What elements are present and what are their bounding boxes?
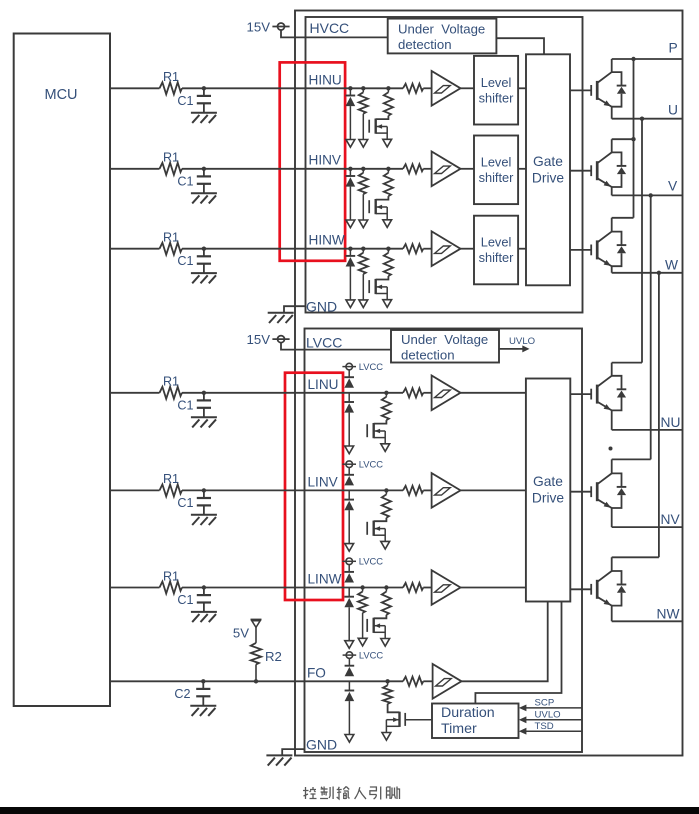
svg-text:detection: detection [401,347,455,362]
resistor R1 (HINW) [160,243,183,255]
COM arrow (MOSFET LINU) [381,444,390,452]
svg-text:Drive: Drive [532,491,565,506]
svg-text:MCU: MCU [44,87,77,103]
resistor to MOSFET (LINW) [385,588,387,592]
LVCC terminal [346,461,353,468]
junction node Q2 high-side V [631,137,635,141]
level shifter block [474,216,518,285]
node resistor branch HINV [361,167,365,171]
wire resistor to buffer (LINW) [423,587,431,589]
svg-text:Under Voltage: Under Voltage [401,332,488,347]
wire resistor to buffer (LINU) [423,392,431,394]
svg-text:R2: R2 [265,649,282,664]
MOSFET pull-down (LINW) [374,615,387,619]
svg-text:C2: C2 [174,687,190,701]
node diode branch HINU [348,86,352,90]
IGBT Q1 high-side U [570,89,591,91]
wire resistor to buffer (HINV) [423,168,431,170]
node resistor branch LINW [360,585,364,589]
resistor R2 pull-up [255,627,257,643]
gate drive block (low side) [526,379,570,602]
wire UV detection to gate drive [496,38,544,54]
wire buffer to level shifter [459,87,474,89]
junction node Q1 high-side U [631,57,635,61]
collector rail Q6 low-side W [612,556,659,558]
clamp diode to LVCC [348,658,350,665]
node resistor branch HINW [361,247,365,251]
clamp diode (HINV) [349,169,351,176]
COM arrow (MOSFET HINU) [383,139,392,147]
COM arrow (MOSFET LINV) [381,541,390,549]
caption 控制输入引脚 [303,787,400,800]
resistor R1 (HINU) [160,82,183,94]
wire 15V to LVCC rail [281,343,391,350]
svg-text:Level: Level [481,75,512,90]
wire W phase down [658,273,660,558]
svg-text:shifter: shifter [479,90,515,105]
svg-text:C1: C1 [177,593,193,607]
wire V phase down [650,195,652,459]
svg-text:C1: C1 [177,496,193,510]
resistor R1 (LINU) [160,387,183,399]
svg-text:C1: C1 [177,94,193,108]
wire LINW input row [110,587,160,589]
svg-text:LVCC: LVCC [359,650,384,661]
wire GND to ground [284,306,306,312]
clamp diode to LVCC [348,468,350,475]
COM arrow (resistor HINU) [359,140,368,148]
COM arrow (clamp) [345,544,354,552]
IGBT Q3 high-side W [570,249,591,251]
wire resistor to buffer (HINW) [423,248,431,250]
svg-text:GND: GND [306,737,337,753]
wire U phase down [641,119,643,363]
series resistor (HINW) [403,244,423,253]
UVLO input line [525,719,583,721]
node C2 [201,679,205,683]
svg-text:TSD: TSD [535,721,554,732]
svg-text:R1: R1 [163,151,179,165]
wire LINW row to IPM [182,587,403,589]
collector rail Q1 high-side U [612,58,683,60]
svg-text:15V: 15V [247,332,271,347]
svg-text:Level: Level [481,155,512,170]
schmitt buffer (LINV) [432,473,461,508]
wire LINU row to IPM [182,392,403,394]
series resistor (HINV) [403,164,423,173]
node MOSFET branch FO [385,679,389,683]
node C1 HINU [202,86,206,90]
junction node Q1 high-side U [640,117,644,121]
svg-text:LINV: LINV [308,475,338,490]
resistor to MOSFET (LINU) [385,393,387,397]
COM arrow (resistor HINW) [359,300,368,308]
5V terminal [251,619,262,621]
red highlight box HIN inputs [280,62,345,260]
wire 15V to HVCC rail [281,30,388,37]
IGBT Q2 high-side V [570,170,591,172]
svg-text:Gate: Gate [533,154,563,169]
svg-text:R1: R1 [163,231,179,245]
black footer bar [0,807,699,814]
terminal 15V HVCC [278,23,285,30]
LVCC terminal [346,652,353,659]
COM arrow (resistor LINW) [358,638,367,646]
wire level shifter to gate drive [518,248,526,250]
duration timer block [432,704,519,739]
ground (C1 HINW) [191,272,217,274]
svg-text:C1: C1 [177,174,193,188]
node MOSFET branch HINW [386,247,390,251]
LVCC terminal [346,363,353,370]
resistor to MOSFET (HINV) [387,169,389,173]
terminal 15V LVCC [278,336,285,343]
svg-text:5V: 5V [233,626,249,641]
capacitor C1 (LINV) [203,490,205,498]
series resistor (HINU) [403,84,423,93]
wire HINV row to IPM [182,168,403,170]
freewheel diode Q6 low-side W [612,571,622,585]
wire LINV row to IPM [182,489,403,491]
high-side section box [306,17,583,313]
MOSFET pull-down (HINU) [376,116,389,120]
wire LINV input row [110,489,160,491]
clamp diode to LVCC [348,565,350,572]
level shifter block [474,56,518,125]
series resistor (FO) [403,677,423,686]
schmitt buffer (FO) [433,664,462,699]
svg-text:Gate: Gate [533,474,563,489]
node MOSFET branch HINU [386,86,390,90]
resistor to MOSFET (HINU) [387,88,389,92]
wire resistor to buffer (HINU) [423,87,431,89]
MOSFET pull-down (LINU) [374,420,387,424]
node resistor branch HINU [361,86,365,90]
wire GND to ground (low side) [282,749,304,755]
svg-text:R1: R1 [163,472,179,486]
svg-text:NW: NW [657,607,680,622]
node C1 LINV [202,488,206,492]
svg-text:R1: R1 [163,70,179,84]
node MOSFET branch LINU [384,391,388,395]
svg-text:LVCC: LVCC [359,361,384,372]
svg-text:shifter: shifter [479,170,515,185]
emitter rail Q2 high-side V [612,194,683,196]
svg-text:LVCC: LVCC [359,459,384,470]
COM arrow (clamp) [345,446,354,454]
freewheel diode Q1 high-side U [612,72,622,86]
node diode branch HINW [348,247,352,251]
svg-text:R1: R1 [163,375,179,389]
svg-text:U: U [668,103,678,118]
schmitt buffer (HINW) [432,231,461,266]
node MOSFET branch HINV [386,167,390,171]
freewheel diode Q3 high-side W [612,232,622,246]
ground (C2) [190,705,216,707]
ground (low side GND) [266,754,292,756]
MOSFET (fault pull-down) [388,704,400,712]
series resistor (LINU) [403,388,423,397]
wire buffer to level shifter [459,168,474,170]
clamp diode low [348,588,350,597]
capacitor C1 (HINV) [203,169,205,177]
wire MOSFET gate to duration timer [405,719,432,721]
pull-down resistor (LINW) [362,588,364,592]
freewheel diode Q2 high-side V [612,152,622,166]
series resistor (LINV) [403,486,423,495]
UVLO output arrow [499,348,526,350]
svg-text:shifter: shifter [479,250,515,265]
SCP input line [525,707,583,709]
collector rail Q2 high-side V [612,138,634,140]
MOSFET pull-down (HINW) [376,276,389,280]
COM arrow (diode HINU) [346,140,355,148]
schmitt buffer (HINU) [432,71,461,106]
pull-down resistor (HINW) [362,249,364,253]
MOSFET pull-down (HINV) [376,196,389,200]
wire duration timer to gate drive [475,602,561,704]
wire resistor to buffer (FO) [423,680,432,682]
wire HINW row to IPM [182,248,403,250]
wire HINV input row [110,168,160,170]
wire buffer to gate drive (LINU) [459,392,526,394]
low-side section box [305,329,583,753]
clamp diode low [348,393,350,402]
node C1 LINU [202,391,206,395]
svg-text:W: W [665,258,678,273]
svg-text:HVCC: HVCC [310,20,350,36]
resistor R1 (LINV) [160,484,183,496]
svg-text:LVCC: LVCC [306,334,342,350]
emitter rail Q4 low-side U [612,429,683,431]
COM arrow (MOSFET HINV) [383,220,392,228]
node diode branch HINV [348,167,352,171]
gate drive block (high side) [526,54,570,285]
clamp diode low [348,681,350,690]
junction node Q3 high-side W [657,271,661,275]
svg-text:FO: FO [307,666,326,681]
wire resistor to buffer (LINV) [423,489,431,491]
emitter rail Q5 low-side V [612,526,683,528]
wire HINU input row [110,87,160,89]
svg-text:LVCC: LVCC [359,556,384,567]
emitter rail Q3 high-side W [612,272,683,274]
capacitor C1 (LINU) [203,393,205,401]
wire level shifter to gate drive [518,87,526,89]
COM arrow (clamp) [345,735,354,743]
svg-text:Drive: Drive [532,171,565,186]
svg-text:SCP: SCP [535,698,555,709]
TSD input line [525,730,583,732]
capacitor C1 (HINW) [203,249,205,257]
ground (C1 LINU) [191,416,217,418]
series resistor (LINW) [403,583,423,592]
collector rail Q4 low-side U [612,362,642,364]
IGBT Q6 low-side W [570,588,591,590]
stray node dot [609,447,613,451]
under-voltage detection block (low side) [391,330,499,363]
COM arrow (MOSFET LINW) [381,639,390,647]
schmitt buffer (LINW) [432,570,461,605]
node C1 HINW [202,247,206,251]
svg-text:15V: 15V [247,20,271,35]
emitter rail Q6 low-side W [612,620,683,622]
ground (C1 HINU) [191,112,217,114]
capacitor C1 (LINW) [203,588,205,596]
wire FO buffer to gate drive [462,602,548,682]
clamp diode to LVCC [348,370,350,377]
ground (high side GND) [268,312,294,314]
pull-down resistor (HINV) [362,169,364,173]
ground (C1 LINV) [191,514,217,516]
svg-text:HINU: HINU [309,72,342,87]
svg-text:P: P [669,41,678,56]
wire FO row from MCU [110,680,403,682]
wire buffer to gate drive (LINV) [459,489,526,491]
resistor to MOSFET (LINV) [385,490,387,494]
MOSFET pull-down (LINV) [374,518,387,522]
node MOSFET branch LINV [384,488,388,492]
svg-text:detection: detection [398,37,452,52]
svg-text:C1: C1 [177,398,193,412]
svg-text:Under Voltage: Under Voltage [398,21,485,36]
freewheel diode Q4 low-side U [612,376,622,390]
wire HINW input row [110,248,160,250]
IGBT Q4 low-side U [570,393,591,395]
node R2-FO [254,679,258,683]
COM arrow (MOSFET HINW) [383,300,392,308]
collector rail Q3 high-side W [612,217,634,219]
svg-text:UVLO: UVLO [535,710,561,721]
node C1 LINW [202,585,206,589]
emitter rail Q1 high-side U [612,118,683,120]
capacitor C2 [202,681,204,689]
wire LINU input row [110,392,160,394]
clamp diode low [348,490,350,499]
svg-text:Duration: Duration [441,705,495,721]
svg-text:NV: NV [661,512,681,527]
wire buffer to level shifter [459,248,474,250]
resistor R1 (HINV) [160,163,183,175]
pull-down resistor (HINU) [362,88,364,92]
level shifter block [474,136,518,205]
svg-text:Level: Level [481,235,512,250]
schmitt buffer (LINU) [432,376,461,411]
ground (C1 LINW) [191,611,217,613]
wire P bus vertical [633,59,635,218]
collector rail Q5 low-side V [612,458,651,460]
under-voltage detection block (high side) [388,19,497,54]
freewheel diode Q5 low-side V [612,473,622,487]
svg-text:GND: GND [306,299,337,315]
LVCC terminal [346,558,353,565]
COM arrow (MOSFET FO) [382,733,391,741]
svg-text:HINV: HINV [309,152,341,167]
junction node Q2 high-side V [649,193,653,197]
wire level shifter to gate drive [518,168,526,170]
COM arrow (clamp) [345,641,354,649]
svg-text:UVLO: UVLO [509,336,535,347]
COM arrow (diode HINW) [346,300,355,308]
svg-text:V: V [668,179,678,194]
ground (C1 HINV) [191,192,217,194]
svg-text:R1: R1 [163,569,179,583]
svg-text:Timer: Timer [441,721,477,737]
resistor to MOSFET (HINW) [387,249,389,253]
svg-text:NU: NU [661,415,681,430]
svg-text:LINW: LINW [308,572,342,587]
MCU block [14,34,110,707]
capacitor C1 (HINU) [203,88,205,96]
node C1 HINV [202,167,206,171]
wire buffer to gate drive (LINW) [459,587,526,589]
red highlight box LIN inputs [285,373,343,600]
svg-text:HINW: HINW [309,232,345,247]
wire HINU row to IPM [182,87,403,89]
resistor to MOSFET (FO) [387,681,389,685]
node MOSFET branch LINW [384,585,388,589]
COM arrow (resistor HINV) [359,220,368,228]
resistor R1 (LINW) [160,582,183,594]
svg-text:C1: C1 [177,254,193,268]
clamp diode (HINU) [349,88,351,95]
IPM outer package box [295,11,683,756]
schmitt buffer (HINV) [432,152,461,187]
svg-text:LINU: LINU [308,377,339,392]
IGBT Q5 low-side V [570,491,591,493]
COM arrow (diode HINV) [346,220,355,228]
clamp diode (HINW) [349,249,351,256]
